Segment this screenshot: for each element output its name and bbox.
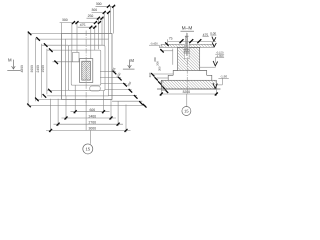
top dim row 3 [87, 17, 104, 19]
left dim line 1 (overall) [27, 32, 29, 106]
left dim line 4 [46, 49, 48, 95]
section step 2 [168, 75, 212, 80]
svg-text:2400: 2400 [36, 65, 40, 73]
svg-text:300: 300 [62, 18, 68, 22]
svg-text:300: 300 [153, 57, 157, 62]
anchor top plate [185, 35, 189, 37]
column hatched core [82, 61, 91, 80]
svg-text:300: 300 [96, 2, 102, 6]
bottom extension lines [74, 85, 76, 113]
svg-text:2700: 2700 [89, 121, 97, 125]
left dim bold ticks top [28, 32, 53, 52]
plan grid bubble 15 [83, 144, 93, 154]
svg-text:75: 75 [169, 37, 173, 41]
top dim row 4 [60, 22, 101, 24]
anchor channel [184, 47, 189, 58]
base ground line [157, 88, 221, 90]
left dim bold ticks bottom [27, 89, 52, 107]
anchor bolt rod [185, 36, 187, 51]
plan vertical centerline [85, 31, 87, 104]
bottom dim row 4 [46, 129, 131, 131]
anchor centerline [186, 33, 188, 57]
section floor slab right piece [189, 44, 214, 47]
elevation 0.00 [210, 31, 216, 41]
svg-text:300: 300 [91, 8, 97, 12]
plan rectangle R3 [68, 45, 105, 90]
niche at pit top-left [73, 52, 80, 61]
section floor slab left piece [161, 44, 184, 47]
svg-text:475: 475 [80, 23, 86, 27]
svg-text:15: 15 [184, 109, 189, 114]
pit wall [71, 50, 101, 85]
top dim row 1 [96, 5, 116, 7]
top dim bold ticks [72, 5, 115, 29]
bottom row 0 line [28, 105, 146, 107]
section step 1 [173, 71, 207, 76]
column outer [80, 59, 93, 83]
top dim row 5 [78, 26, 97, 28]
section bottom dimension [160, 89, 218, 96]
bottom dim row 3 [54, 123, 124, 125]
svg-text:3200: 3200 [183, 90, 191, 94]
svg-text:3000: 3000 [89, 127, 97, 131]
bottom dim row 2 [62, 117, 117, 119]
svg-text:M–M: M–M [182, 26, 193, 32]
bottom dim row 1 [71, 111, 110, 113]
section axis and bubble [182, 33, 191, 116]
svg-text:15: 15 [85, 147, 90, 152]
plan grid axis to bubble [90, 130, 92, 144]
section bottom pad [161, 80, 216, 89]
svg-text:300: 300 [155, 61, 159, 66]
slab left elevation label [149, 43, 161, 48]
left dim line 3 [41, 44, 43, 98]
svg-text:3000: 3000 [30, 65, 34, 73]
svg-text:250: 250 [88, 14, 94, 18]
svg-text:1500: 1500 [41, 65, 45, 73]
left extension stubs [28, 33, 61, 35]
sump rounded rect [90, 86, 100, 91]
section mark M right [123, 58, 135, 69]
section top dimension row [165, 33, 216, 46]
section pedestal [178, 47, 200, 70]
section left cascade [148, 49, 173, 93]
top dim extension lines [60, 23, 62, 34]
svg-text:4800: 4800 [20, 65, 24, 73]
right cascade extension lines [100, 71, 116, 73]
svg-text:M: M [130, 58, 134, 63]
anchor sleeve joint lines [184, 48, 190, 50]
section mark M left [7, 58, 20, 71]
elevation -1.90 [213, 75, 229, 89]
bottom bold ticks [49, 110, 127, 132]
svg-text:300: 300 [148, 72, 152, 77]
top dim row 2 [92, 11, 111, 13]
plan rectangle R2 [65, 39, 108, 96]
elevation mark at slab bottom right [212, 42, 216, 47]
svg-text:-1.90: -1.90 [220, 75, 227, 79]
plan outer rectangle R1 [61, 34, 112, 100]
axis stub and tick at plan left edge [53, 61, 81, 63]
right cascade diagonal ticks [113, 71, 143, 105]
elevation labels -0.150 / -1.050 [200, 52, 224, 68]
svg-text:0.00: 0.00 [210, 31, 216, 35]
svg-text:300: 300 [158, 66, 162, 71]
svg-text:2400: 2400 [89, 114, 97, 118]
svg-text:600: 600 [89, 108, 95, 112]
svg-text:M: M [8, 58, 12, 63]
left dim line 2 [35, 38, 37, 101]
